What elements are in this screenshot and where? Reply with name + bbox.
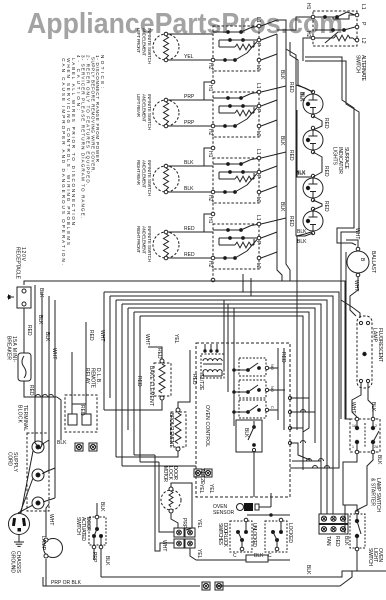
svg-text:BLK: BLK [279,202,285,212]
svg-text:DOOR LOCKSWITCHES: DOOR LOCKSWITCHES [217,523,228,548]
svg-text:120VRECEPTACLE: 120VRECEPTACLE [15,247,27,280]
label unlocked [233,523,257,559]
wire E4 bottom to switch S4 (RED) [168,252,211,258]
connector block labels [325,536,349,547]
S1 terminal labels [207,17,261,92]
label broil element [168,413,174,447]
oven control inner verticals [278,348,286,430]
chassis ground symbol [14,535,24,547]
svg-text:P: P [360,22,366,26]
wire fluorescent bottom WHT [350,383,361,417]
wire jog to H1 terminal [204,214,211,232]
wire jog to H1 terminal [204,82,211,100]
wire alt switch H2 feed [303,38,311,61]
bus wire 2 [104,292,339,462]
wire fluorescent bottom BLK [368,383,376,417]
wire BLK left vertical 2 [41,292,43,445]
wire BLK bus to I3 top [296,110,311,177]
wire WHT left vertical 3 [48,296,50,470]
bus wire 8 [140,316,303,470]
svg-text:RED: RED [323,118,329,129]
oven lamp [44,538,63,558]
wire lamp switch bottom BLK [343,454,382,505]
svg-text:PRP: PRP [181,518,187,529]
harness v6 [332,296,334,514]
crossing wire c3 [290,427,303,429]
svg-text:RED: RED [28,385,34,396]
door actuated switch [89,515,106,549]
wire motor connector left feeds [155,455,174,551]
svg-text:UNLOCKED: UNLOCKED [251,523,257,547]
surface indicator light I1 [303,90,323,117]
svg-text:P: P [255,241,261,245]
svg-text:YEL: YEL [196,519,202,529]
ballast [347,247,369,277]
connector block TAN/RED/BLK [319,514,348,534]
svg-text:YEL: YEL [208,484,214,494]
label oven control [204,405,210,447]
wire E1 bottom to switch S1 (YEL) [168,54,211,60]
wire receptacle top BLK [38,288,44,298]
wire E4 top to switch S4 (RED) [168,226,213,232]
wire E2 top to switch S2 (PRP) [168,94,213,100]
wire receptacle to breaker RED [24,308,32,353]
svg-text:LOCKED: LOCKED [287,523,293,543]
svg-text:H2: H2 [305,31,311,38]
oven control left edge connectors [194,469,214,494]
svg-text:1A: 1A [352,424,357,428]
svg-text:PRP: PRP [184,120,195,126]
svg-text:H1: H1 [207,151,213,158]
oven sensor [213,493,271,516]
crossing wire c1 [290,398,309,432]
motor connector labels [161,518,202,559]
svg-text:L2: L2 [255,263,261,269]
svg-text:INFINITE SWITCHAND ELEMENTLEFT: INFINITE SWITCHAND ELEMENTLEFT REAR [136,94,152,130]
wire lamp top WHT [46,504,54,537]
bus left drop 6 [127,308,129,430]
svg-text:YEL: YEL [196,549,202,559]
bus wire 1 [24,281,350,419]
wire BLK left vertical 1 [34,285,36,443]
label chassis ground [10,551,22,574]
motor connector row 1 [174,528,195,537]
svg-text:BLK: BLK [279,136,285,146]
svg-text:P: P [255,175,261,179]
svg-text:PRP OR BLK: PRP OR BLK [51,580,82,586]
svg-text:BLK: BLK [104,556,110,566]
wire pair drop A to ballast [305,57,356,245]
svg-text:H2: H2 [207,261,213,268]
label 120V receptacle [15,247,27,280]
wire I1 to I2 (RED) [313,116,329,130]
bus left drop 7 [133,312,135,455]
infinite switch S4 [211,222,261,282]
oven control relay K2 [234,380,269,398]
harness v1 [296,246,298,430]
motor connector row 2 [174,539,195,548]
svg-text:C: C [270,406,275,409]
wire I4 bottom drop [297,229,313,246]
power plug [9,514,30,535]
relay terminal labels [270,364,275,409]
door lock switch A [230,518,252,552]
svg-text:2: 2 [375,424,377,428]
svg-text:H2: H2 [207,63,213,70]
wire alt switch H1 feed [277,17,311,30]
label door actuated switch [75,517,91,541]
svg-text:SUPPLYCORD: SUPPLYCORD [7,452,19,473]
svg-text:INFINITE SWITCHAND ELEMENTRIGH: INFINITE SWITCHAND ELEMENTRIGHT REAR [136,160,152,196]
wire lower link 1 [116,456,160,458]
S2 terminal labels [207,83,261,158]
svg-text:WHT: WHT [161,540,167,551]
svg-text:P: P [255,109,261,113]
S4 terminal labels [207,215,261,269]
svg-text:RED: RED [323,201,329,212]
svg-text:YEL: YEL [198,484,204,494]
svg-text:INFINITE SWITCHAND ELEMENTRIGH: INFINITE SWITCHAND ELEMENTRIGHT FRONT [136,226,152,262]
svg-text:WHT: WHT [48,514,54,525]
svg-text:RED: RED [79,405,85,416]
harness v4 [320,304,322,514]
bottom small junction box [196,555,290,562]
surface indicator light I4 [303,207,323,234]
svg-text:BLK: BLK [370,402,376,412]
supply cord wires to plug [18,451,33,513]
wire I3 to I4 (RED) [313,200,329,212]
wire E3 top to switch S3 (BLK) [168,160,213,166]
wire broil RED [191,374,197,385]
svg-text:RED: RED [288,216,294,227]
wire lower link 4 [140,461,159,463]
D.L.B. remote relay [65,395,97,432]
crossing wire c5 [292,460,321,462]
svg-text:BLK: BLK [184,186,194,192]
label E2 [136,94,152,130]
wire motor bottom [171,513,178,528]
bus left drop 4 [115,300,117,457]
harness v2 [340,247,342,419]
wire jog to H1 terminal [204,148,211,166]
svg-text:L1: L1 [360,4,366,10]
120V receptacle [8,287,31,308]
bottom wire B PRP OR BLK [43,571,352,586]
svg-text:RED: RED [184,226,195,232]
svg-text:H1: H1 [305,3,311,10]
wire bus RED x286 [261,20,294,281]
wire motor connector bottom drop [190,548,196,560]
svg-text:BLK: BLK [297,239,307,245]
svg-text:RED: RED [88,330,94,341]
wire I2 to I3 (RED) [313,152,329,177]
bus left drop 2 [103,292,105,410]
svg-text:H1: H1 [207,85,213,92]
svg-text:BLK: BLK [376,455,382,465]
wire lamp bottom to PRP OR BLK wire [45,559,47,586]
svg-text:WHT: WHT [99,330,105,341]
BLK contact box [236,420,262,497]
svg-text:TAN: TAN [325,536,331,546]
broil element [171,408,186,451]
svg-text:2A: 2A [374,445,379,449]
svg-text:C: C [268,553,272,559]
svg-text:BLK: BLK [57,440,67,446]
heating element E2 left rear [153,98,179,128]
svg-text:RED: RED [184,252,195,258]
wire oven light switch bottom [345,551,357,571]
harness v5 [326,300,328,514]
svg-text:L2: L2 [255,65,261,71]
label supply cord [7,452,19,473]
wire pair drop B to fluorescent [305,61,360,318]
svg-text:L1: L1 [255,215,261,221]
wire breaker down RED [24,381,34,397]
bake element [154,359,171,400]
svg-text:DOORACTUATEDSWITCH: DOORACTUATEDSWITCH [75,517,91,541]
svg-text:CHASSISGROUND: CHASSISGROUND [10,551,22,574]
svg-text:RED: RED [156,348,162,359]
wire E1 top to switch S1 [168,33,213,35]
heating element E1 left front [153,32,179,62]
svg-text:BROIL ELEMENT: BROIL ELEMENT [168,413,174,447]
wire E3 bottom to switch S3 (BLK) [168,186,211,192]
wire motor top [171,483,192,530]
svg-text:C: C [233,553,237,559]
label T1/T2E [198,374,205,485]
svg-text:RED: RED [136,376,142,387]
svg-text:L1: L1 [255,149,261,155]
infinite switch S2 [211,90,261,150]
right vertical harness drops [288,246,346,514]
label fluorescent lamp [372,328,384,362]
label E1 [136,28,152,64]
infinite switch S3 [211,156,261,216]
svg-text:YEL: YEL [173,334,179,344]
svg-text:BLK: BLK [38,288,44,298]
svg-text:RED: RED [334,536,340,547]
wire ballast bottom WHT [350,277,359,316]
wire bus BLK x277 [261,34,285,281]
svg-text:RED: RED [288,82,294,93]
svg-text:BLK: BLK [44,332,50,342]
svg-text:RED: RED [26,325,32,336]
svg-text:L2: L2 [255,197,261,203]
left supply verticals [35,285,55,498]
label alternate switch [355,55,367,82]
oven control relay K3 [234,400,269,418]
relay common vertical [224,274,251,426]
svg-text:1: 1 [352,445,354,449]
svg-text:L1: L1 [255,17,261,23]
svg-text:BLK: BLK [254,553,264,559]
left vertical labels [37,315,57,359]
bottom connector pair [202,582,223,590]
bus wire 4 [116,300,327,461]
bus wire 7 [134,312,309,428]
label D.L.B. remote relay [84,368,101,389]
svg-text:L2: L2 [255,131,261,137]
fluorescent lamp [357,316,372,388]
door lock switch B [265,518,287,552]
15A mini-breaker [18,353,31,381]
svg-text:RED: RED [280,352,286,363]
oven control transformer [201,344,224,378]
svg-text:TERMINALBLOCK: TERMINALBLOCK [17,405,29,431]
svg-text:WHT: WHT [144,334,150,345]
lamp switch pin labels [352,424,379,449]
svg-text:P: P [255,43,261,47]
relay output connectors [57,440,97,451]
label lamp [40,536,46,551]
svg-text:LAMP: LAMP [40,536,46,551]
door lock switches wire [247,514,290,517]
crossing wire c6 [290,462,339,468]
label locked [254,523,293,559]
wire oven light switch top [345,505,357,533]
bus labels [99,330,179,359]
svg-text:H2: H2 [207,195,213,202]
label ballast [370,251,376,273]
oven control relay K1 [234,358,269,376]
bus wire 6 [128,308,315,443]
bus wire 5 [122,304,321,455]
notice text block [61,55,105,265]
terminal block [27,433,55,511]
svg-text:L1: L1 [255,83,261,89]
svg-text:SURFACEINDICATORLIGHTS: SURFACEINDICATORLIGHTS [331,147,349,174]
bus wire 3 [110,296,333,475]
svg-text:NO: NO [270,386,275,392]
svg-text:BALLAST: BALLAST [370,251,376,273]
label lamp switch and starter [370,478,382,512]
wire door actuated bottom to bottom bus [91,549,110,577]
wire broil top [178,350,190,408]
svg-text:WHT: WHT [353,280,359,291]
label door lock switches [217,523,228,548]
crossing wire c4 [290,443,310,460]
wire relay outputs [269,368,285,410]
svg-text:BLK: BLK [343,536,349,546]
wire breaker to terminal block with hops [31,395,61,441]
svg-text:BLK: BLK [305,565,311,575]
harness v3 [345,252,347,419]
main harness bus lines [24,281,350,475]
svg-text:L2: L2 [360,38,366,44]
svg-text:WHT: WHT [350,402,356,413]
svg-text:LAMP SWITCH& STARTER: LAMP SWITCH& STARTER [370,478,382,512]
svg-text:NO: NO [270,364,275,370]
wire ballast top WHT [346,228,360,247]
label bake element [148,366,154,406]
bus left drop 8 [139,316,141,462]
surface indicator light I3 [303,174,323,201]
bus left drop 5 [121,304,123,466]
alternate switch labels [305,3,366,44]
bottom wire A BLK [101,565,386,577]
label E4 [136,226,152,262]
crossing wire c2 [290,412,315,443]
wire left vertical 4 [54,300,56,498]
wire lamp switch right bottom [357,454,373,510]
svg-text:RED: RED [288,150,294,161]
wire E2 bottom to switch S2 (PRP) [168,120,211,126]
svg-text:FLUORESCENTLAMP: FLUORESCENTLAMP [372,328,384,362]
oven control box [196,343,290,497]
svg-text:BLK: BLK [243,428,249,438]
label terminal block [17,405,29,431]
svg-text:INFINITE SWITCHAND ELEMENTLEFT: INFINITE SWITCHAND ELEMENTLEFT FRONT [136,28,152,64]
wire broil bottom [160,451,178,457]
door lock motor [161,487,181,513]
oven light switch [350,510,365,551]
svg-text:DOORLOCKMOTOR: DOORLOCKMOTOR [162,466,178,482]
label door lock motor [162,466,178,482]
S3 terminal labels [207,149,261,224]
wire relay risers [72,322,94,404]
lamp switch and starter [350,417,380,454]
svg-text:BLK: BLK [296,170,306,176]
svg-text:BLK: BLK [298,92,304,102]
heating element E4 right front [153,230,179,260]
label surface indicator lights [331,147,349,174]
svg-text:H2: H2 [207,129,213,136]
alternate switch [311,11,359,46]
wire bake top [148,347,162,359]
wire door actuated top BLK [97,502,105,515]
svg-text:YEL: YEL [184,54,194,60]
wire lower link 3 [134,454,155,456]
svg-text:NOTICE:1- DISCONNECT RANGE FRO: NOTICE:1- DISCONNECT RANGE FROM POWER SU… [61,55,105,265]
label 15A mini-breaker [6,336,18,362]
svg-text:OVENLIGHTSWITCH: OVENLIGHTSWITCH [367,548,383,566]
svg-text:WHT: WHT [354,228,360,239]
svg-text:WHT: WHT [51,348,57,359]
svg-text:BLK: BLK [37,315,43,325]
svg-text:SENSOR: SENSOR [213,510,235,516]
svg-text:OVEN CONTROL: OVEN CONTROL [204,405,210,447]
wire BLK feed to I1 top [290,42,313,102]
svg-text:BAKE ELEMENT: BAKE ELEMENT [148,366,154,406]
label E3 [136,160,152,196]
svg-text:B: B [359,258,365,262]
svg-text:RED: RED [323,166,329,177]
svg-text:PRP: PRP [91,552,97,563]
bus left drop 3 [109,296,111,398]
svg-text:H1: H1 [207,217,213,224]
svg-text:ALTERNATESWITCH: ALTERNATESWITCH [355,55,367,82]
svg-text:BLK: BLK [99,502,105,512]
heating element E3 right rear [153,164,179,194]
surface indicator light I2 [303,126,323,153]
svg-text:D.L.B.REMOTERELAY: D.L.B.REMOTERELAY [84,368,101,389]
wire bus BLK x296 to lights [286,49,311,245]
wire lower link 2 [122,465,196,467]
label oven light switch [367,548,383,566]
wire bake RED [136,376,142,387]
svg-text:BLK: BLK [184,160,194,166]
infinite switch S1 [211,24,261,84]
svg-text:15A MINI-BREAKER: 15A MINI-BREAKER [6,336,18,362]
svg-text:PRP: PRP [184,94,195,100]
svg-text:BLK: BLK [279,70,285,80]
wire bake bottom [104,400,162,410]
